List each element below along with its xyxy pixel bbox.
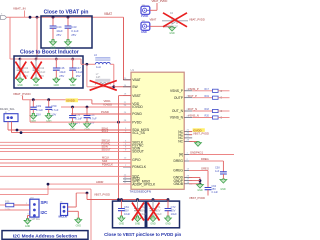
svg-text:PGND: PGND [101,110,109,114]
svg-text:GND: GND [25,225,31,228]
svg-text:Close to VBST pin: Close to VBST pin [104,232,143,237]
svg-text:VSNS_P: VSNS_P [170,89,184,93]
svg-text:R19: R19 [205,95,210,98]
svg-text:GND: GND [70,84,76,87]
svg-text:GND: GND [119,223,125,226]
svg-text:25V: 25V [36,112,41,116]
svg-text:SDOUT: SDOUT [132,150,144,154]
svg-text:25V: 25V [59,74,64,78]
svg-text:SW: SW [132,85,138,89]
svg-text:VBAT_PVDD: VBAT_PVDD [152,0,168,3]
svg-text:I2C: I2C [41,210,49,215]
svg-text:25V: 25V [71,33,76,37]
svg-text:VBST_PVDD: VBST_PVDD [193,132,209,136]
svg-text:DREG: DREG [201,157,209,161]
svg-text:VBST_PVDD: VBST_PVDD [189,196,205,200]
svg-text:ADDR_SPICLK: ADDR_SPICLK [132,182,156,186]
svg-text:C72: C72 [171,205,176,209]
svg-text:U1: U1 [131,68,135,72]
svg-text:1uF: 1uF [215,170,220,173]
svg-text:OUTP: OUTP [174,96,184,100]
svg-text:10V: 10V [51,112,56,116]
svg-text:PVDD: PVDD [132,120,142,124]
svg-text:SDOUT: SDOUT [102,147,111,151]
svg-text:GND: GND [165,223,171,226]
svg-text:VBAT_PVDD: VBAT_PVDD [13,92,31,96]
svg-text:35V: 35V [140,209,145,213]
svg-text:R17: R17 [205,88,210,91]
svg-text:GREG: GREG [173,169,183,173]
svg-text:10uF: 10uF [124,212,130,216]
svg-text:DREG: DREG [173,159,183,163]
svg-text:Close to VBAT pin: Close to VBAT pin [44,10,89,16]
svg-text:VSNS_N: VSNS_N [188,114,199,118]
svg-text:25V: 25V [75,121,80,125]
svg-text:GNDPKG1: GNDPKG1 [190,151,204,155]
svg-text:OUT_N: OUT_N [188,107,197,111]
svg-text:GND: GND [169,32,175,35]
svg-text:1uH: 1uH [96,76,101,79]
svg-text:GPIO: GPIO [132,158,141,162]
svg-text:PGND: PGND [132,112,142,116]
svg-text:10V: 10V [90,121,95,125]
svg-text:VBST: VBST [132,94,141,98]
svg-text:C61: C61 [124,205,129,209]
svg-text:GND: GND [150,223,156,226]
svg-text:GND: GND [76,224,82,227]
svg-text:R20: R20 [205,115,210,118]
svg-text:35V: 35V [171,209,176,213]
svg-text:Close to Boost Inductor: Close to Boost Inductor [20,49,79,55]
svg-text:DA I2C_SCL: DA I2C_SCL [0,107,15,111]
svg-text:10uF: 10uF [171,212,177,216]
svg-text:GNDB: GNDB [173,182,183,186]
svg-text:PVDD: PVDD [141,14,148,18]
svg-text:IOVDD: IOVDD [104,102,113,106]
svg-text:VBAT_PVDD: VBAT_PVDD [189,17,205,21]
svg-text:GND: GND [54,84,60,87]
svg-text:ADDR: ADDR [96,180,103,184]
svg-text:R18: R18 [205,108,210,111]
svg-text:NC: NC [178,140,183,144]
svg-text:1uH: 1uH [96,65,101,69]
svg-text:SPI: SPI [41,200,48,205]
svg-text:PDMCLK: PDMCLK [132,165,147,169]
svg-text:35V: 35V [124,209,129,213]
svg-text:TAS2563DQFN: TAS2563DQFN [130,190,151,194]
svg-text:PDMCLK: PDMCLK [102,163,113,167]
svg-text:GND: GND [135,223,141,226]
svg-text:IOVDD: IOVDD [66,99,75,103]
svg-text:IOVDD: IOVDD [132,105,143,109]
svg-text:35V: 35V [156,209,161,213]
svg-text:Close to PVDD pin: Close to PVDD pin [142,232,181,237]
svg-text:MCLK: MCLK [59,215,68,219]
svg-text:VSNS_P: VSNS_P [188,87,199,91]
svg-text:0.1uF: 0.1uF [212,191,219,194]
svg-text:GND: GND [17,84,23,87]
svg-text:I2C Mode Address Selection: I2C Mode Address Selection [13,233,77,239]
svg-text:SDZ: SDZ [102,159,108,163]
svg-text:25V: 25V [56,33,61,37]
svg-text:[A]: [A] [179,153,183,157]
svg-text:VBST_PVDD: VBST_PVDD [94,193,110,197]
svg-text:GND: GND [33,84,39,87]
svg-text:MCLK: MCLK [102,156,109,160]
svg-text:OUT_N: OUT_N [172,109,184,113]
svg-text:VBAT: VBAT [132,78,140,82]
svg-text:GND: GND [141,30,147,34]
svg-text:VBAT_IN: VBAT_IN [13,6,26,10]
svg-text:VBAT: VBAT [150,17,157,21]
svg-text:GND: GND [220,188,226,191]
svg-text:SCL_SS: SCL_SS [132,131,145,135]
svg-text:GREG: GREG [201,166,209,170]
svg-text:VBAT: VBAT [104,12,112,16]
svg-text:SCL1: SCL1 [102,129,109,133]
svg-text:OUT_P: OUT_P [188,94,197,98]
svg-text:25V: 25V [76,74,81,78]
svg-text:VSNS_N: VSNS_N [170,116,184,120]
svg-text:GND: GND [197,189,203,192]
